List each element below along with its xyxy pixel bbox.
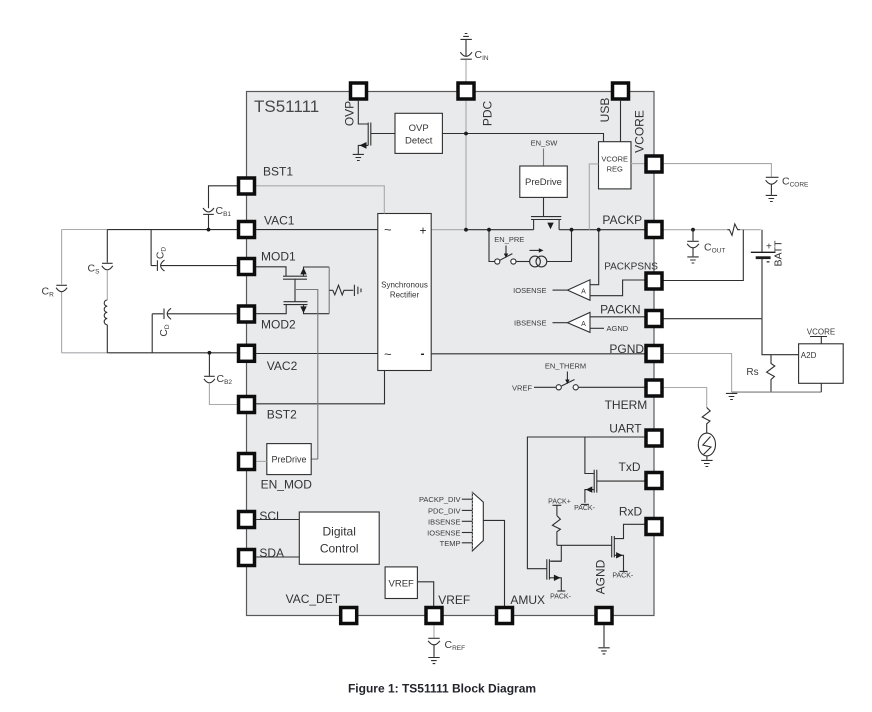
op-amp A2 IBSENSE [514,312,645,333]
pin VREF [426,593,470,624]
caption Figure 1 [348,682,536,696]
pin VAC1 [239,214,295,238]
pin AGND [594,559,613,623]
inductor L1 [104,300,107,353]
svg-text:PACKP: PACKP [602,213,642,227]
IC body U1 TS51111 [247,92,655,616]
pin MOD1 [239,250,296,275]
resistor Rs [746,355,774,392]
wire VCORE external [664,164,772,177]
svg-text:BATT: BATT [772,240,784,267]
svg-text:TS51111: TS51111 [254,97,319,116]
wire PACKN external [664,318,763,320]
ground (CCORE) [766,195,777,201]
svg-text:PACKPSNS: PACKPSNS [604,262,658,273]
pin PACKN [600,303,662,327]
svg-text:RxD: RxD [619,505,643,519]
svg-text:Figure 1: TS51111 Block Diagra: Figure 1: TS51111 Block Diagram [348,682,536,696]
resistor (MOD snubber) [329,285,353,295]
svg-text:THERM: THERM [605,398,648,412]
switch EN_PRE bypass [487,228,516,264]
svg-text:PGND: PGND [609,342,644,356]
svg-text:Digital: Digital [323,525,356,539]
svg-text:IBSENSE: IBSENSE [428,517,461,526]
wire EN_MOD pin to PreDrive [256,460,267,462]
node EN_SW [531,139,559,166]
thermistor RT [698,433,715,460]
ground (OVP source) [353,154,364,160]
svg-text:PACKP_DIV: PACKP_DIV [419,495,461,504]
svg-text:VCORE: VCORE [807,327,835,336]
wire THERM external [664,388,707,408]
svg-text:AGND: AGND [607,324,629,333]
pin PDC [458,83,495,126]
capacitor CD (bottom) [152,308,237,353]
transistor Q7 (RxD) [612,524,645,579]
svg-text:VAC2: VAC2 [267,359,298,373]
svg-text:A2D: A2D [801,351,817,360]
pin MOD2 [239,306,296,332]
block PreDrive (switch driver) [520,166,568,197]
pin PACKP [602,213,662,238]
svg-text:REG: REG [607,165,623,174]
pin THERM [605,380,662,412]
svg-text:BST2: BST2 [267,408,297,422]
wire AMUX FET drain bus [550,545,611,561]
svg-text:A: A [581,288,586,295]
capacitor CB1 [203,186,237,230]
svg-text:VCORE: VCORE [601,155,628,164]
svg-text:PreDrive: PreDrive [525,177,562,188]
wire OVP Detect output to VCORE REG [442,134,603,142]
block PreDrive (EN_MOD) [267,444,311,475]
node EN_PRE [494,235,524,258]
svg-text:SCL: SCL [259,509,283,523]
svg-text:AGND: AGND [594,559,608,594]
node PACK+ pull-up [548,499,571,516]
ground (COUT) [687,257,698,263]
wire Rs bottom rail [732,391,822,393]
node IOSENSE [427,529,472,538]
node junction PDC/rail [464,228,468,232]
svg-text:EN_SW: EN_SW [531,139,559,148]
pin VAC_DET [286,592,357,624]
wire PGND internal [431,353,645,355]
transistor Q1 (OVP PMOS) [358,123,395,155]
wire SDA internal [256,556,299,558]
wire battery to Rs/A2D [762,319,799,355]
wire MOD2 pin to transistor [256,304,286,313]
svg-text:PDC_DIV: PDC_DIV [428,506,461,515]
svg-text:PACKN: PACKN [600,303,640,317]
ground (thermistor) [701,460,712,466]
svg-text:TxD: TxD [619,460,641,474]
svg-text:Synchronous: Synchronous [381,281,428,290]
current source (precharge) [516,228,573,267]
svg-text:VREF: VREF [438,593,470,607]
svg-text:OVP: OVP [409,123,429,134]
svg-text:OVP: OVP [343,101,357,126]
block Synchronous Rectifier [378,214,431,371]
svg-text:VCORE: VCORE [633,110,647,153]
svg-text:IBSENSE: IBSENSE [514,318,547,327]
op-amp block OVP Detect [395,113,442,153]
svg-text:TEMP: TEMP [440,539,461,548]
svg-text:+: + [766,242,772,253]
ground (PGND/Rs) [726,393,737,399]
wire AGND to ground [603,625,605,647]
pin RxD [619,505,662,535]
svg-text:PreDrive: PreDrive [271,455,306,465]
capacitor COUT [687,230,725,257]
svg-text:EN_THERM: EN_THERM [545,361,586,370]
transistor Q6 (AMUX) [547,559,572,600]
op-amp A1 IOSENSE [513,228,600,300]
wire PDC net vertical [465,101,467,230]
svg-text:PACK-: PACK- [550,594,572,601]
node TEMP [440,539,472,548]
pin SDA [239,546,285,566]
wire PACKPSNS external [664,230,744,281]
pin AMUX [497,593,546,624]
capacitor CS [88,230,113,300]
node junction COUT [691,228,695,232]
pin PACKPSNS [604,262,662,290]
svg-text:~: ~ [384,222,392,237]
svg-text:BST1: BST1 [263,165,293,179]
svg-text:PACK-: PACK- [574,505,596,512]
pin OVP [343,83,367,126]
wire TxD gate drop [585,437,594,474]
transistor Q4 (MOD2) [284,290,330,314]
wire VAC1 internal [256,229,378,231]
svg-text:Rs: Rs [746,367,758,378]
svg-text:MOD1: MOD1 [261,250,296,264]
node junction CB1/VAC1 [207,228,211,232]
ground (snubber, rotated) [354,285,361,296]
node IBSENSE [428,517,472,526]
capacitor CIN [460,40,489,82]
pin VCORE [633,110,663,172]
capacitor CR [42,230,68,353]
svg-text:SDA: SDA [259,546,284,560]
svg-text:VREF: VREF [389,578,415,589]
battery BATT [751,230,785,319]
ground (AGND) [598,648,609,654]
capacitor CREF [428,638,465,657]
wire resonant top [62,229,237,231]
wire MOD drain bus [328,267,330,314]
node junction OVP/PDC [464,132,468,136]
svg-text:USB: USB [598,98,612,123]
capacitor CCORE [766,176,809,195]
pin TxD [619,460,663,488]
node VCORE (A2D supply) [807,327,835,344]
wire VREF to pin [417,582,433,606]
wire AMUX output [483,520,504,606]
capacitor CB2 [204,353,237,405]
svg-text:VAC_DET: VAC_DET [286,592,341,606]
wire VREF pin to CREF [433,625,435,638]
svg-text:IOSENSE: IOSENSE [427,529,460,538]
pin VAC2 [239,345,298,373]
resistor (thermistor bias) [702,408,710,434]
wire PACKPSNS internal [590,280,645,296]
block Digital Control [299,512,379,564]
pin USB [598,83,629,122]
svg-text:EN_PRE: EN_PRE [494,235,524,244]
ground (CREF) [428,658,439,664]
svg-text:VAC1: VAC1 [264,214,295,228]
svg-text:~: ~ [384,347,392,362]
resistor (PACK+ pull-up) [552,516,560,546]
wire PACKP external [664,224,761,235]
transistor Q5 (TxD) [574,470,645,512]
svg-text:-: - [766,256,770,268]
svg-text:PACK+: PACK+ [548,499,571,506]
svg-text:MOD2: MOD2 [261,318,296,332]
node VREF (therm switch input) [512,383,556,392]
wire VCORE REG input from rail [589,164,598,230]
transistor Q2 (pass FET) [531,197,561,229]
svg-text:Control: Control [320,542,359,556]
wire MOD1 pin to transistor [256,267,286,277]
wire resonant bottom [62,352,237,354]
switch EN_THERM [545,361,645,390]
block A2D [799,344,844,392]
pin EN_MOD [239,454,313,492]
node junction CB2/VAC2 [208,351,212,355]
svg-text:IOSENSE: IOSENSE [513,286,546,295]
wire BST2 internal [256,371,384,404]
wire SCL internal [256,519,299,521]
pin SCL [239,509,284,528]
node PACKP_DIV [419,495,472,504]
wire UART internal [527,437,644,569]
transistor Q3 (MOD1) [283,267,329,290]
svg-text:Detect: Detect [405,136,433,147]
wire VAC2 internal [256,353,378,355]
svg-text:EN_MOD: EN_MOD [261,478,313,492]
block VREF reference [385,567,417,599]
multiplexer AMUX [472,492,483,550]
wire BST1 internal [256,186,384,214]
svg-text:Rectifier: Rectifier [390,291,420,300]
wire PGND external [664,354,732,393]
svg-text:PACK-: PACK- [612,573,634,580]
svg-text:VREF: VREF [512,383,532,392]
svg-text:AMUX: AMUX [510,593,545,607]
wire VCORE REG output to VCORE pin [631,163,645,165]
pin BST2 [239,397,298,422]
wire OVP pin to transistor [358,101,368,124]
svg-text:+: + [420,224,427,238]
block VCORE REG [599,142,632,189]
capacitor CD (top) [151,230,237,272]
pin PGND [609,342,662,362]
ground (above CIN, flipped) [460,34,471,40]
svg-text:A: A [581,321,586,328]
svg-text:-: - [421,347,425,361]
node PDC_DIV [428,506,472,515]
wire USB pin to VCORE REG [620,101,622,142]
wire MOD gate bus to PreDrive [295,290,318,460]
pin BST1 [239,165,294,194]
svg-text:PDC: PDC [481,101,495,127]
pin UART [609,421,662,446]
svg-text:UART: UART [609,421,642,435]
wire PACKP rail [431,229,645,231]
